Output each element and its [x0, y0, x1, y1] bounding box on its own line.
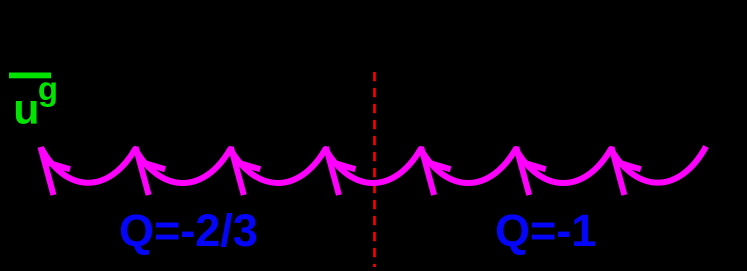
- arrowhead 2: [136, 147, 166, 195]
- arrowhead 3: [231, 147, 261, 195]
- svg-text:g: g: [38, 70, 58, 107]
- arrowhead 4: [326, 147, 356, 195]
- dashed boundary line (red): [373, 72, 376, 267]
- arrowhead 7: [611, 147, 641, 195]
- arrowhead 6: [516, 147, 546, 195]
- arrowhead 5: [421, 147, 451, 195]
- svg-text:u: u: [13, 86, 39, 134]
- svg-text:Q=-1: Q=-1: [495, 205, 596, 256]
- trajectory arcs (magenta cycloid chain): [41, 147, 706, 183]
- svg-text:Q=-2/3: Q=-2/3: [119, 205, 258, 256]
- label u-bar^g : overline bar: [9, 73, 51, 79]
- arrowhead 1: [41, 147, 71, 195]
